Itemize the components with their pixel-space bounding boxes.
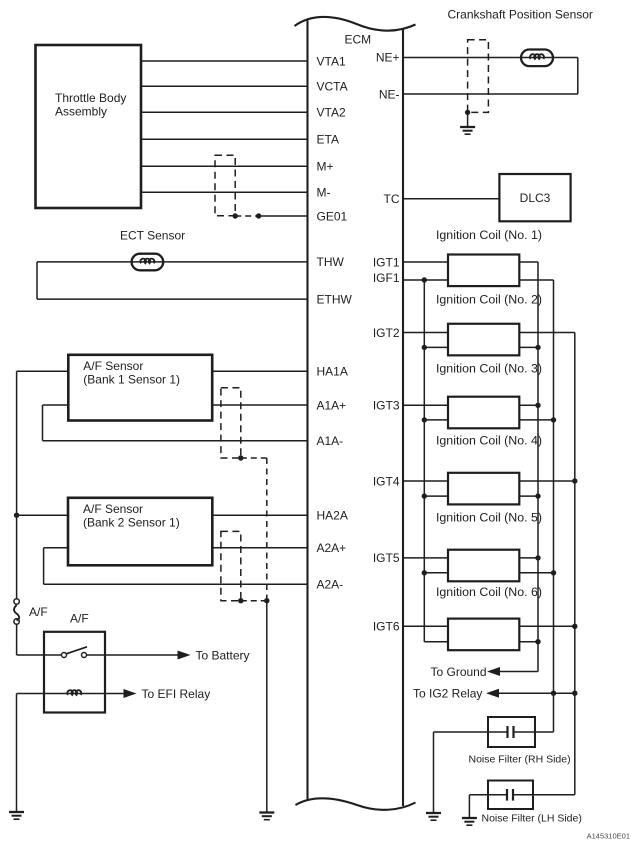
ECT sensor thermistor symbol bbox=[132, 254, 164, 271]
svg-text:IGF1: IGF1 bbox=[373, 271, 400, 285]
svg-text:ECM: ECM bbox=[345, 33, 372, 47]
wire LH filter right to bus C bbox=[533, 794, 575, 796]
wire VTA2 from throttle body to ECM bbox=[141, 111, 308, 113]
pin label HA2A bbox=[317, 509, 348, 523]
svg-text:ETHW: ETHW bbox=[317, 292, 353, 306]
wire IGF1 from ECM to coil bbox=[403, 279, 448, 281]
svg-text:A/F: A/F bbox=[29, 605, 48, 619]
svg-text:Throttle Body: Throttle Body bbox=[55, 91, 126, 105]
figure number label bbox=[587, 832, 630, 841]
pin label HA1A bbox=[317, 365, 348, 379]
A/F sensor bank1 box bbox=[68, 355, 212, 421]
node bus junction coil 4 top bbox=[572, 478, 577, 483]
wire fuse to relay switch bbox=[17, 624, 62, 655]
noise filter LH box bbox=[488, 781, 533, 810]
wire M- from throttle body to ECM bbox=[141, 191, 308, 193]
relay coil symbol bbox=[67, 690, 81, 695]
svg-text:DLC3: DLC3 bbox=[520, 191, 551, 205]
svg-text:VCTA: VCTA bbox=[317, 80, 348, 94]
wire coil 2 bottom-right to bus bbox=[519, 346, 538, 348]
wire TC to DLC3 bbox=[403, 198, 499, 200]
svg-text:A1A-: A1A- bbox=[317, 434, 344, 448]
svg-text:To IG2 Relay: To IG2 Relay bbox=[413, 687, 482, 701]
wire dashed shield1 drain right bbox=[241, 457, 267, 459]
node crank shield drain junction bbox=[465, 110, 470, 115]
wire coil 5 top-right to bus bbox=[519, 557, 538, 559]
shield dashed box around A1A wires bbox=[221, 388, 241, 458]
svg-text:Assembly: Assembly bbox=[55, 105, 107, 119]
fuse A/F symbol bbox=[14, 599, 19, 624]
svg-text:ETA: ETA bbox=[317, 133, 339, 147]
pin label NE- bbox=[379, 87, 400, 101]
svg-text:NE+: NE+ bbox=[376, 51, 400, 65]
node IG2 line x bus B bbox=[551, 691, 556, 696]
wire HA1A from sensor1 to ECM bbox=[212, 370, 307, 372]
ignition coil label (No. 6) bbox=[436, 585, 542, 599]
svg-text:Noise Filter (LH Side): Noise Filter (LH Side) bbox=[482, 813, 582, 825]
wire coil 3 top-right to bus bbox=[519, 404, 538, 406]
wire coil 4 bottom-right to bus bbox=[519, 495, 538, 497]
wire IGT5 from ECM to coil bbox=[403, 557, 448, 559]
pin label VCTA bbox=[317, 80, 348, 94]
capacitor C1 in RH filter bbox=[488, 726, 535, 738]
crankshaft position sensor label bbox=[448, 8, 593, 22]
to battery label bbox=[196, 648, 250, 662]
node shield2 drain junction bbox=[238, 598, 243, 603]
ground noise filter LH bbox=[462, 818, 477, 825]
wire A2A- to ECM bbox=[44, 583, 308, 585]
pin label A1A+ bbox=[317, 398, 347, 412]
node IGF bus junction coil 3 bbox=[422, 417, 427, 422]
wire M+ from throttle body to ECM bbox=[141, 165, 308, 167]
crankshaft pickup coil symbol bbox=[521, 50, 553, 67]
node IGF bus junction coil 4 bbox=[422, 493, 427, 498]
wire coil 1 top-right to bus bbox=[519, 261, 538, 263]
ignition coil U2 box bbox=[448, 324, 519, 356]
node shield1 drain junction bbox=[238, 455, 243, 460]
arrow to EFI relay bbox=[124, 689, 137, 698]
shield dashed box around M+/M- wires bbox=[215, 155, 235, 216]
node IGF bus junction coil 5 bbox=[422, 570, 427, 575]
svg-text:VTA2: VTA2 bbox=[317, 106, 346, 120]
wire coil 6 top-right to bus bbox=[519, 625, 575, 627]
capacitor C2 in LH filter bbox=[488, 789, 533, 801]
svg-text:IGT1: IGT1 bbox=[373, 255, 400, 269]
wire coil 3 bottom-right to bus bbox=[519, 419, 553, 421]
wire ETHW return to ECM bbox=[37, 298, 308, 300]
wire HA2A from sensor2 to ECM bbox=[212, 514, 307, 516]
pin label IGT6 bbox=[373, 620, 400, 634]
pin label THW bbox=[317, 255, 345, 269]
ECM left boundary line (wire) bbox=[306, 21, 308, 801]
arrow to battery bbox=[178, 651, 191, 660]
wire IGT2 from ECM to coil bbox=[403, 332, 448, 334]
svg-text:(Bank 1 Sensor 1): (Bank 1 Sensor 1) bbox=[83, 372, 180, 386]
ground sensor shields bbox=[259, 813, 274, 820]
ignition coil U5 box bbox=[448, 550, 519, 582]
wire NE- return to ECM bbox=[403, 93, 578, 95]
ignition coil U3 box bbox=[448, 397, 519, 429]
svg-text:A/F Sensor: A/F Sensor bbox=[83, 359, 143, 373]
node bus junction coil 4 bottom bbox=[535, 493, 540, 498]
node bus junction coil 5 bottom bbox=[551, 570, 556, 575]
pin label IGT3 bbox=[373, 399, 400, 413]
wire to-IG2-relay horizontal bbox=[499, 692, 575, 694]
ECM bottom wavy edge (wire) bbox=[296, 798, 416, 810]
pin label GE01 bbox=[317, 209, 348, 223]
svg-text:To Battery: To Battery bbox=[196, 648, 250, 662]
wire IGT1 from ECM to coil bbox=[403, 261, 448, 263]
relay label A/F bbox=[70, 612, 89, 626]
relay A/F box bbox=[44, 632, 105, 713]
wire coil 2 IGF to bus bbox=[424, 346, 448, 348]
wire IG2 bus C vertical bbox=[574, 333, 576, 795]
wire sensor2 power to left rail bbox=[17, 514, 68, 516]
svg-text:A145310E01: A145310E01 bbox=[587, 832, 630, 841]
svg-text:GE01: GE01 bbox=[317, 209, 348, 223]
shield dashed box around A2A wires bbox=[221, 531, 241, 600]
wire A1A+ from sensor1 to ECM bbox=[212, 404, 307, 406]
ignition coil label (No. 3) bbox=[436, 361, 542, 375]
wire crank shield to ground bbox=[467, 112, 469, 127]
svg-text:M-: M- bbox=[317, 186, 331, 200]
wire VTA1 from throttle body to ECM bbox=[141, 60, 308, 62]
svg-text:Ignition Coil (No. 6): Ignition Coil (No. 6) bbox=[436, 585, 542, 599]
pin label A2A- bbox=[317, 578, 344, 592]
svg-text:NE-: NE- bbox=[379, 87, 400, 101]
svg-text:Crankshaft Position Sensor: Crankshaft Position Sensor bbox=[448, 8, 593, 22]
wire sensor1 power to left rail bbox=[17, 370, 69, 372]
pin label IGT1 bbox=[373, 255, 400, 269]
wire LH filter left to ground bbox=[469, 795, 488, 818]
wire relay coil bbox=[17, 693, 125, 695]
ECT sensor label bbox=[120, 229, 185, 243]
wire IGT3 from ECM to coil bbox=[403, 404, 448, 406]
wire NE+ from ECM to corner bbox=[403, 58, 578, 95]
node left rail junction bbox=[14, 513, 19, 518]
wire VCTA from throttle body to ECM bbox=[141, 85, 308, 87]
ignition coil U1 box bbox=[448, 255, 519, 287]
ground crankshaft sensor shield bbox=[460, 127, 475, 134]
svg-text:A2A-: A2A- bbox=[317, 578, 344, 592]
node bus junction coil 6 top bbox=[572, 624, 577, 629]
svg-text:ECT Sensor: ECT Sensor bbox=[120, 229, 185, 243]
node IG2 line x bus C bbox=[572, 691, 577, 696]
to IG2 relay label bbox=[413, 687, 482, 701]
pin label IGT2 bbox=[373, 326, 400, 340]
noise filter RH label bbox=[469, 754, 571, 766]
svg-text:A1A+: A1A+ bbox=[317, 398, 347, 412]
node bus junction coil 2 bottom bbox=[535, 345, 540, 350]
shield dashed box around NE wires bbox=[468, 40, 489, 113]
ECM right boundary line (wire) bbox=[402, 29, 404, 806]
node bus junction coil 3 bottom bbox=[551, 417, 556, 422]
pin label TC bbox=[384, 192, 400, 206]
wire RH filter right to bus B bbox=[535, 731, 554, 733]
wire ETA from throttle body to ECM bbox=[141, 138, 308, 140]
wire A1A- to ECM bbox=[43, 440, 308, 442]
wire coil 1 bottom-right to bus bbox=[519, 279, 553, 281]
svg-text:A/F Sensor: A/F Sensor bbox=[83, 502, 143, 516]
pin label IGT4 bbox=[373, 474, 400, 488]
node IGF bus top junction bbox=[422, 277, 427, 282]
wire sensor2 left loop bbox=[44, 548, 68, 585]
pin label IGF1 bbox=[373, 271, 400, 285]
wire GE01 to ECM bbox=[259, 215, 308, 217]
wire ground bus vertical bbox=[537, 262, 539, 672]
node bus junction coil 3 top bbox=[535, 403, 540, 408]
wire IGF common bus vertical bbox=[423, 280, 425, 642]
svg-text:HA1A: HA1A bbox=[317, 365, 348, 379]
wire IGT6 from ECM to coil bbox=[403, 625, 448, 627]
wire relay coil down to ground bbox=[16, 694, 18, 812]
DLC3 label bbox=[520, 191, 551, 205]
svg-text:IGT3: IGT3 bbox=[373, 399, 400, 413]
pin label VTA2 bbox=[317, 106, 346, 120]
wire coil 6 bottom-right to bus bbox=[519, 641, 538, 643]
svg-text:M+: M+ bbox=[317, 160, 334, 174]
node GE01 junction bbox=[256, 213, 261, 218]
wire IG2 bus B vertical bbox=[553, 280, 555, 732]
svg-text:Ignition Coil (No. 4): Ignition Coil (No. 4) bbox=[436, 433, 542, 447]
svg-text:TC: TC bbox=[384, 192, 400, 206]
ignition coil label (No. 2) bbox=[436, 292, 542, 306]
fuse label A/F bbox=[29, 605, 48, 619]
pin label IGT5 bbox=[373, 551, 400, 565]
arrow to IG2 relay bbox=[486, 689, 499, 698]
to EFI relay label bbox=[142, 687, 211, 701]
arrow to ground bbox=[487, 667, 500, 676]
svg-text:VTA1: VTA1 bbox=[317, 54, 346, 68]
node IGF bus junction coil 2 bbox=[422, 345, 427, 350]
wire shield drain down to ground bbox=[266, 601, 268, 812]
noise filter LH label bbox=[482, 813, 582, 825]
wire left rail from HA1A down to fuse bbox=[16, 371, 18, 599]
pin label A2A+ bbox=[317, 541, 347, 555]
wire coil 4 IGF to bus bbox=[424, 495, 448, 497]
ECM top wavy edge (wire) bbox=[295, 17, 416, 31]
wire THW from ECM to left and down bbox=[37, 262, 308, 299]
wire coil 5 IGF to bus bbox=[424, 572, 448, 574]
svg-text:To EFI Relay: To EFI Relay bbox=[142, 687, 211, 701]
ground relay coil bbox=[9, 812, 24, 819]
svg-text:(Bank 2 Sensor 1): (Bank 2 Sensor 1) bbox=[83, 515, 180, 529]
wire RH filter left to ground bbox=[434, 732, 489, 813]
A/F sensor bank1 label bbox=[83, 359, 180, 387]
ground noise filter RH bbox=[426, 813, 441, 820]
to ground label bbox=[431, 665, 487, 679]
svg-text:Ignition Coil (No. 5): Ignition Coil (No. 5) bbox=[436, 510, 542, 524]
wire sensor1 left loop bbox=[43, 405, 69, 441]
relay switch contacts bbox=[62, 647, 88, 658]
ignition coil U4 box bbox=[448, 473, 519, 505]
pin label A1A- bbox=[317, 434, 344, 448]
A/F sensor bank2 box bbox=[68, 498, 212, 566]
pin label NE+ bbox=[376, 51, 400, 65]
svg-text:A/F: A/F bbox=[70, 612, 89, 626]
pin label M- bbox=[317, 186, 331, 200]
pin label ETA bbox=[317, 133, 339, 147]
svg-text:Ignition Coil (No. 3): Ignition Coil (No. 3) bbox=[436, 361, 542, 375]
svg-text:A2A+: A2A+ bbox=[317, 541, 347, 555]
svg-text:IGT4: IGT4 bbox=[373, 474, 400, 488]
svg-text:IGT5: IGT5 bbox=[373, 551, 400, 565]
ignition coil label (No. 5) bbox=[436, 510, 542, 524]
wire dashed shield drain to GE01 bbox=[235, 215, 258, 217]
DLC3 box bbox=[499, 174, 570, 221]
wire coil 4 top-right to bus bbox=[519, 480, 575, 482]
svg-text:Noise Filter (RH Side): Noise Filter (RH Side) bbox=[469, 754, 571, 766]
node shield drain junction at GE01 bbox=[233, 213, 238, 218]
A/F sensor bank2 label bbox=[83, 502, 180, 530]
wire coil 2 top-right to bus bbox=[519, 332, 575, 334]
node bus junction coil 6 bottom bbox=[535, 639, 540, 644]
pin label ETHW bbox=[317, 292, 353, 306]
pin label VTA1 bbox=[317, 54, 346, 68]
svg-text:Ignition Coil (No. 1): Ignition Coil (No. 1) bbox=[436, 228, 542, 242]
node shield drain to ground junction bbox=[264, 598, 269, 603]
wire dashed shield drain vertical bbox=[266, 458, 268, 601]
wire switch to battery arrow bbox=[87, 654, 179, 656]
svg-text:THW: THW bbox=[317, 255, 345, 269]
svg-text:HA2A: HA2A bbox=[317, 509, 348, 523]
svg-text:IGT2: IGT2 bbox=[373, 326, 400, 340]
wire dashed shield2 drain right bbox=[241, 600, 267, 602]
wire IGT4 from ECM to coil bbox=[403, 480, 448, 482]
throttle body assembly label bbox=[55, 91, 126, 119]
noise filter RH box bbox=[488, 717, 535, 747]
throttle body assembly box bbox=[36, 45, 142, 208]
wire to-ground horizontal bbox=[499, 671, 538, 673]
ECM label bbox=[345, 33, 372, 47]
ignition coil label (No. 1) bbox=[436, 228, 542, 242]
svg-text:To Ground: To Ground bbox=[431, 665, 487, 679]
svg-text:Ignition Coil (No. 2): Ignition Coil (No. 2) bbox=[436, 292, 542, 306]
wire coil 6 IGF to bus bbox=[424, 641, 448, 643]
svg-text:IGT6: IGT6 bbox=[373, 620, 400, 634]
wire coil 3 IGF to bus bbox=[424, 419, 448, 421]
node bus junction coil 5 top bbox=[535, 555, 540, 560]
wire coil 5 bottom-right to bus bbox=[519, 572, 553, 574]
ignition coil U6 box bbox=[448, 619, 519, 651]
pin label M+ bbox=[317, 160, 334, 174]
ignition coil label (No. 4) bbox=[436, 433, 542, 447]
wire A2A+ from sensor2 to ECM bbox=[212, 547, 307, 549]
